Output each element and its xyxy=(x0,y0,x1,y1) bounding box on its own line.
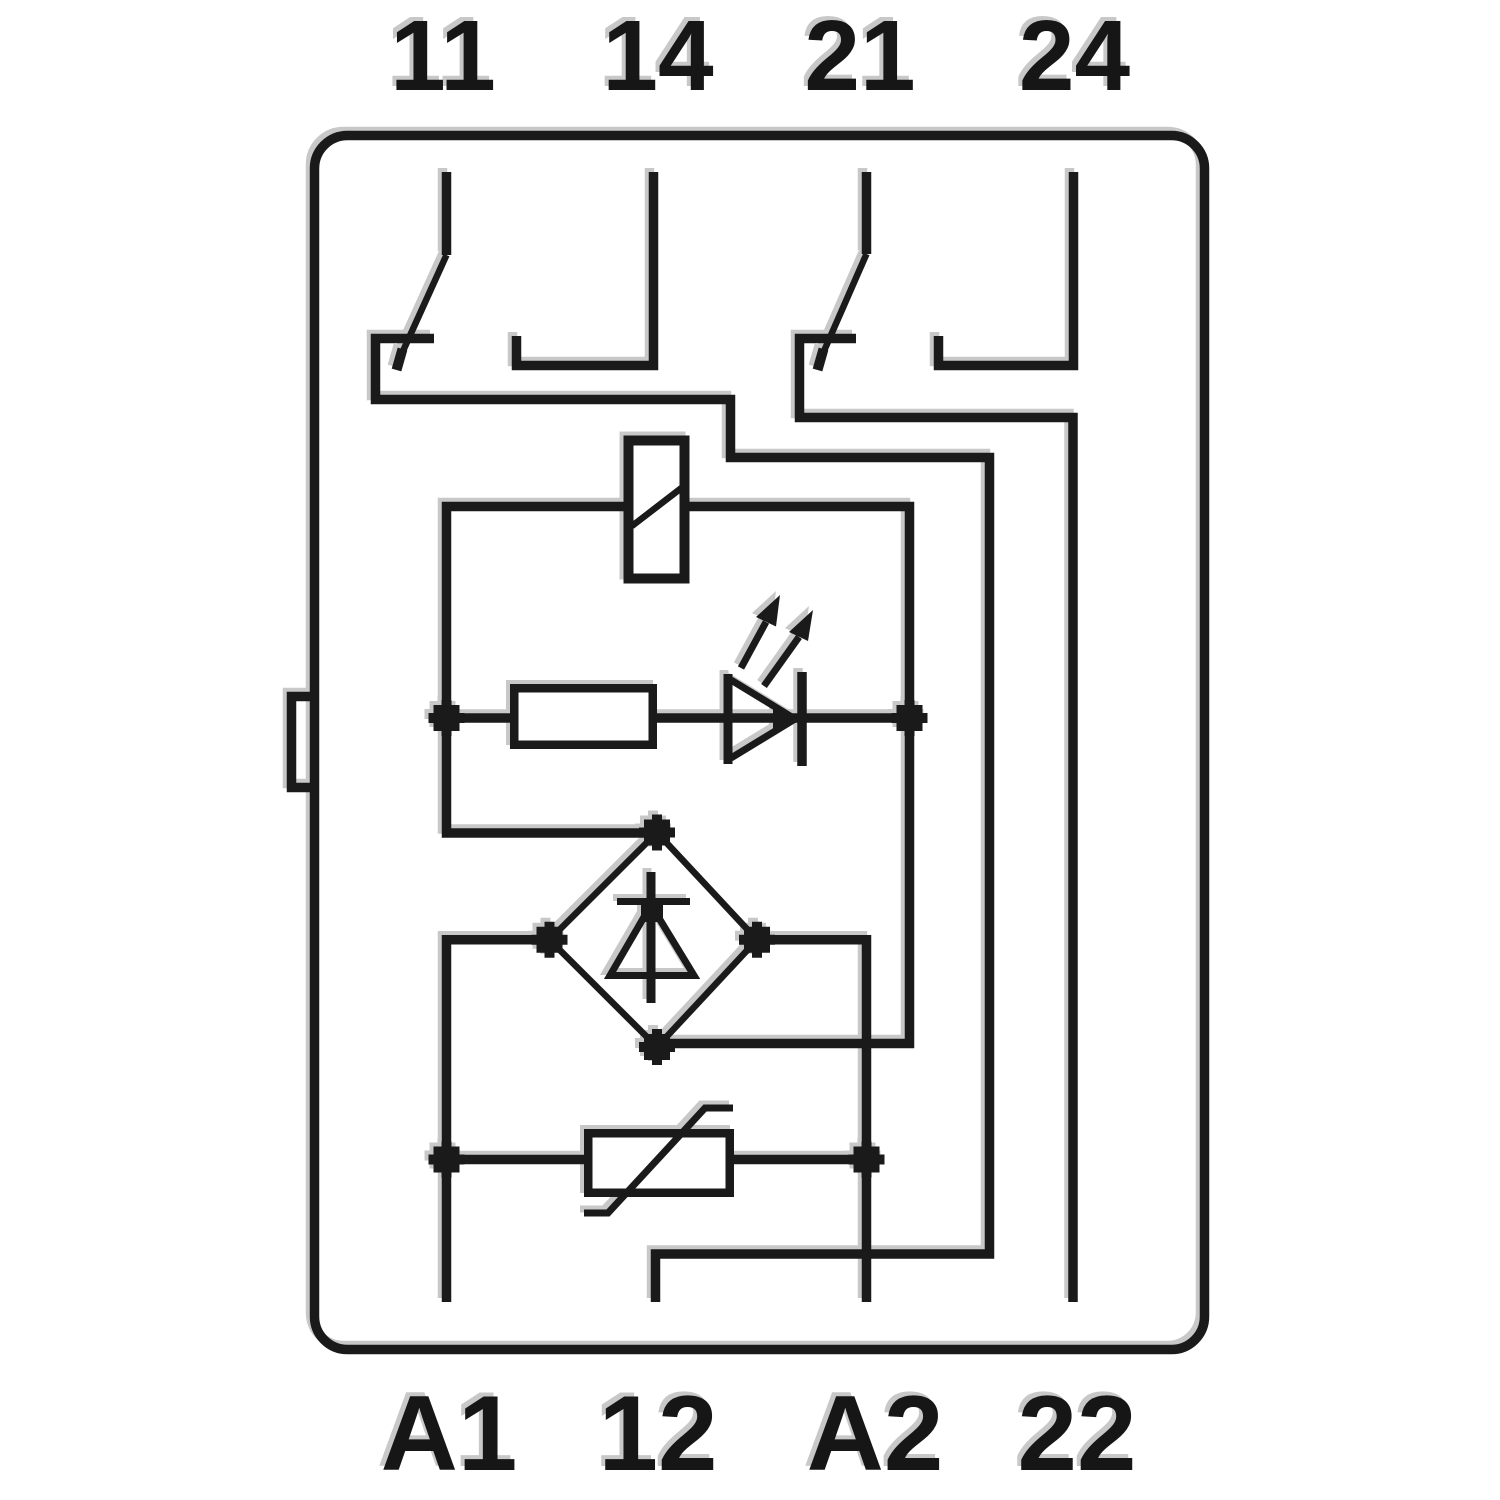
svg-text:24: 24 xyxy=(1019,0,1131,112)
svg-text:21: 21 xyxy=(804,0,915,112)
svg-text:A1: A1 xyxy=(381,1373,518,1493)
svg-text:12: 12 xyxy=(598,1373,717,1493)
svg-text:22: 22 xyxy=(1017,1373,1136,1493)
svg-text:A2: A2 xyxy=(807,1373,944,1493)
svg-text:14: 14 xyxy=(602,0,714,112)
svg-text:11: 11 xyxy=(390,0,496,112)
